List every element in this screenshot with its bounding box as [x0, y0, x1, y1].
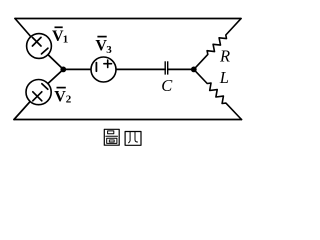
svg-text:C: C [161, 76, 173, 95]
wire bottom [14, 119, 242, 121]
wire V3 to C [112, 68, 165, 70]
wire C to node B [168, 68, 194, 70]
svg-text:1: 1 [63, 33, 69, 45]
svg-text:V: V [54, 88, 66, 105]
caption 圖 (Figure) [104, 129, 119, 145]
label V3 [95, 37, 112, 56]
source V2 [26, 80, 51, 105]
source V3 [91, 57, 116, 82]
wire left-top diagonal [15, 19, 63, 70]
label V1 [52, 27, 68, 45]
svg-text:3: 3 [106, 44, 112, 56]
resistor R [194, 19, 241, 70]
node A [60, 67, 66, 73]
svg-text:2: 2 [66, 94, 72, 106]
node B [191, 67, 197, 73]
svg-text:R: R [219, 47, 230, 66]
label V2 [54, 88, 72, 106]
caption 四 (four) [125, 132, 141, 146]
wire node A to V3 [63, 68, 95, 70]
wire left-bottom diagonal [14, 69, 63, 119]
svg-text:L: L [219, 68, 229, 87]
source V1 [27, 34, 52, 59]
capacitor C [165, 61, 168, 74]
wire top [15, 18, 241, 20]
inductor L [194, 69, 242, 119]
